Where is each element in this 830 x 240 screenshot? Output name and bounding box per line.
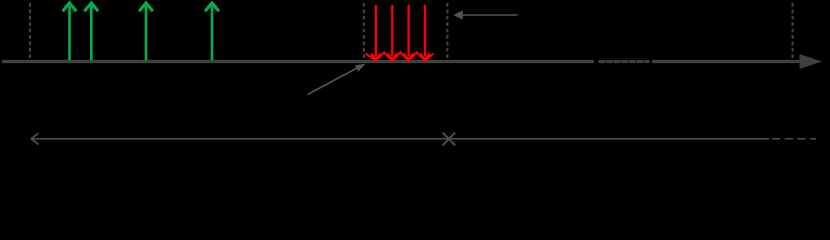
bottom dimension line left arrowhead (open chevron) <box>31 133 38 144</box>
dashed boundary line 3 (burst end, x=447.3) <box>446 3 448 60</box>
green up-arrow 1 (x=69.5) <box>63 3 77 61</box>
annotation arrow (diagonal, pointing to burst start on axis) <box>308 64 366 95</box>
bottom dimension line (solid span) <box>32 138 770 140</box>
time axis (main horizontal line, left solid segment) <box>2 60 594 63</box>
bottom dimension divider X marker (crossed arrowheads at x=448.8) <box>443 133 456 146</box>
time axis right solid segment <box>652 60 801 63</box>
red burst impulse 4 (down arrow, x=425) <box>420 5 429 60</box>
time axis dotted gap segment <box>600 60 648 63</box>
green up-arrow 3 (x=146) <box>139 3 153 61</box>
bottom dimension line dashed continuation (right end) <box>772 138 816 140</box>
green up-arrow 2 (x=91.3) <box>84 3 98 61</box>
dashed boundary line 2 (burst start, x=363.8) <box>363 3 365 60</box>
red burst impulse 1 (down arrow, x=375.8) <box>371 5 380 60</box>
green up-arrow 4 (x=212) <box>205 3 219 61</box>
dashed boundary line 4 (right, x=792.6) <box>791 3 793 60</box>
dashed boundary line 1 (left, x=30) <box>29 3 31 60</box>
red noise zigzag waveform along baseline of burst <box>366 53 434 61</box>
time axis arrowhead (right end) <box>800 54 823 69</box>
annotation arrow (horizontal, pointing left to burst-end dashed line) <box>453 10 517 19</box>
red burst impulse 2 (down arrow, x=392.3) <box>388 5 397 60</box>
red burst impulse 3 (down arrow, x=408.6) <box>404 5 413 60</box>
